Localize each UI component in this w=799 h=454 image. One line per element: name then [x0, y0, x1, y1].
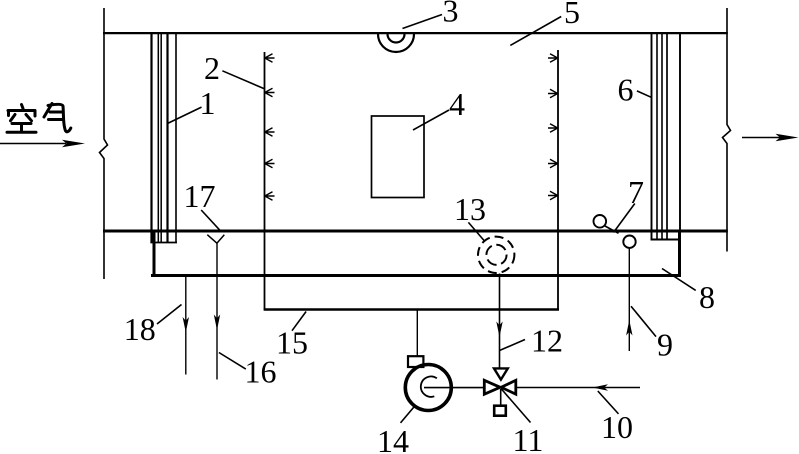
water tank 8 walls — [151, 231, 681, 277]
component 4 (rectangle body) — [372, 116, 425, 198]
spray nozzle arrows (left bank, pointing left) — [265, 54, 275, 200]
svg-text:7: 7 — [628, 174, 644, 210]
duct bottom wall — [103, 230, 728, 233]
spray nozzle arrows (right bank, pointing right) — [548, 54, 558, 200]
eliminator bank 6 (vertical plates) — [651, 33, 682, 240]
svg-text:16: 16 — [245, 354, 277, 390]
leader for label 18 — [157, 305, 182, 325]
float ball 7a — [594, 215, 607, 228]
pan 15 bottom — [264, 308, 559, 310]
strainer 13 (dashed concentric circles) — [478, 237, 514, 273]
svg-text:9: 9 — [657, 327, 673, 363]
leader for label 10 — [598, 391, 619, 414]
svg-text:15: 15 — [276, 325, 308, 361]
arrow down on pipe 12 — [496, 322, 502, 338]
svg-text:13: 13 — [454, 191, 486, 227]
leader for label 15 — [292, 312, 306, 331]
float valve 7b — [623, 236, 635, 248]
svg-text:11: 11 — [513, 422, 544, 454]
svg-text:3: 3 — [443, 0, 459, 29]
arrow down on line 18 — [183, 317, 189, 333]
pump impeller arc — [421, 376, 437, 396]
drop pipe 12 from strainer to valve — [499, 274, 501, 369]
svg-text:14: 14 — [377, 423, 409, 454]
top duct wall — [103, 32, 728, 34]
spray pipe (right bank) — [557, 50, 559, 309]
float arm wire — [605, 226, 619, 233]
label 空气 (air) — [7, 104, 71, 133]
lamp 3 (two semicircles under top wall) — [378, 34, 414, 52]
leader for label 7 — [614, 204, 635, 233]
leader for label 16 — [219, 353, 246, 370]
svg-text:2: 2 — [204, 50, 220, 86]
arrow up on line 9 — [626, 320, 632, 336]
drain line 16 from funnel — [216, 243, 218, 380]
svg-text:12: 12 — [531, 323, 563, 359]
leader for label 9 — [631, 306, 656, 336]
svg-text:6: 6 — [618, 72, 634, 108]
leader for label 12 — [500, 340, 526, 351]
overflow line 18 — [185, 277, 187, 375]
leader for label 3 — [403, 15, 443, 29]
leader for label 17 — [201, 210, 220, 231]
three-way valve 11 — [484, 368, 516, 415]
leader for label 8 — [662, 269, 696, 291]
arrow down on line 16 — [214, 315, 220, 331]
makeup water line 9 — [628, 248, 630, 352]
leader for label 14 — [401, 405, 416, 423]
svg-text:1: 1 — [200, 85, 216, 121]
leader for label 2 — [222, 71, 264, 89]
wire tank to pump suction — [416, 309, 418, 356]
leader for label 4 — [413, 110, 449, 130]
pump suction box — [408, 356, 423, 367]
arrow left on pipe 10 — [593, 384, 609, 390]
svg-text:8: 8 — [699, 279, 715, 315]
leader for label 5 — [510, 17, 561, 46]
leader for label 11 — [501, 389, 531, 423]
pump 14 body — [405, 365, 451, 411]
leader for label 6 — [637, 91, 652, 98]
filter bank 1 (vertical plates) — [150, 33, 177, 243]
svg-text:5: 5 — [564, 0, 580, 30]
right duct wall with break — [723, 8, 731, 252]
supply pipe 10 — [516, 387, 641, 389]
svg-text:4: 4 — [449, 86, 465, 122]
inlet arrowhead — [62, 140, 85, 147]
svg-text:10: 10 — [601, 409, 633, 445]
funnel 17 — [207, 235, 224, 244]
wire outlet air line — [742, 137, 780, 139]
wire inlet air line — [0, 143, 66, 145]
spray pipe 2 (left bank) — [264, 52, 266, 309]
svg-text:17: 17 — [184, 178, 216, 214]
svg-text:18: 18 — [124, 311, 156, 347]
outlet arrowhead — [776, 134, 799, 141]
leader for label 13 — [468, 222, 485, 241]
leader for label 1 — [167, 107, 201, 124]
left duct wall with break — [100, 8, 108, 279]
wire pump outlet to valve — [424, 387, 485, 389]
